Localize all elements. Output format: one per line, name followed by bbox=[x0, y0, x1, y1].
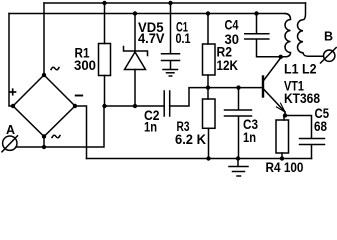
node R3 bottom on ground rail bbox=[206, 156, 210, 160]
node base junction R2 R3 bbox=[206, 85, 210, 89]
svg-text:A: A bbox=[6, 123, 15, 137]
plus sign bridge output bbox=[10, 89, 16, 95]
resistor R2 bbox=[203, 14, 216, 88]
label C2 bbox=[144, 108, 160, 123]
capacitor C3 bbox=[225, 88, 252, 159]
label 1n value C3 bbox=[243, 130, 256, 145]
label 300 value bbox=[74, 58, 96, 73]
label A bbox=[6, 123, 15, 137]
wire rail2 plus rail from left corner to L1 bbox=[9, 13, 285, 15]
node bridge top vertex bbox=[42, 73, 46, 77]
svg-text:4.7V: 4.7V bbox=[138, 31, 165, 46]
label 0.1 value bbox=[176, 31, 191, 46]
node VD5 top on rail2 bbox=[133, 11, 137, 15]
minus sign bridge output bbox=[76, 95, 83, 97]
label R4 100 value bbox=[266, 160, 304, 175]
inductor L2 bbox=[298, 3, 324, 56]
ground symbol under C1 bbox=[163, 70, 178, 77]
bridge rectifier diamond bbox=[13, 75, 75, 137]
node R2 top on rail2 bbox=[206, 11, 210, 15]
capacitor C1 bbox=[162, 3, 180, 69]
node bridge right vertex bbox=[73, 104, 77, 108]
node bridge bottom vertex bbox=[42, 134, 46, 138]
ground symbol under ground rail bbox=[229, 159, 248, 177]
label R3 bbox=[177, 119, 190, 134]
svg-text:KT368: KT368 bbox=[284, 91, 320, 106]
node bridge left vertex bbox=[11, 104, 15, 108]
svg-text:6.2 K: 6.2 K bbox=[175, 132, 206, 147]
svg-text:C4: C4 bbox=[225, 18, 239, 33]
label R2 bbox=[217, 45, 233, 60]
node collector junction L1 C4 bbox=[279, 55, 283, 59]
svg-text:68: 68 bbox=[314, 119, 327, 134]
svg-text:12K: 12K bbox=[217, 58, 239, 73]
zener diode VD5 bbox=[124, 14, 148, 107]
node C3 bottom on ground rail bbox=[236, 156, 240, 160]
wire stub rail1 down to bridge top vertex bbox=[43, 3, 45, 75]
label 6.2 K value bbox=[175, 132, 206, 147]
label B bbox=[324, 30, 333, 44]
tilde ac top bbox=[51, 67, 59, 70]
node R4 bottom on ground rail bbox=[280, 156, 284, 160]
svg-text:R4 100: R4 100 bbox=[266, 160, 304, 175]
wire top rail1 from bridge top to L2 drop bbox=[44, 2, 306, 4]
resistor R1 bbox=[99, 3, 111, 106]
node VD5 bottom junction bbox=[133, 104, 137, 108]
label L1 L2 bbox=[284, 62, 317, 77]
svg-text:L1 L2: L1 L2 bbox=[284, 62, 317, 77]
label C5 bbox=[315, 106, 330, 121]
transistor VT1 collector bbox=[264, 57, 281, 80]
capacitor C5 bbox=[300, 139, 325, 159]
label C3 bbox=[243, 117, 258, 132]
wire line node y106 from R1 to C2 bbox=[105, 105, 165, 107]
wire emitter node to C5 top bbox=[285, 116, 312, 139]
node R1 bottom junction bbox=[102, 104, 106, 108]
capacitor C2 bbox=[164, 91, 170, 116]
svg-text:1n: 1n bbox=[144, 120, 157, 135]
node junction A wire and bridge stub bbox=[42, 145, 46, 149]
label 4.7V value bbox=[138, 31, 165, 46]
wire minus from bridge right vertex down to ground rail bbox=[75, 106, 87, 159]
node C4 top on rail2 bbox=[254, 11, 258, 15]
wire C2 right plate to base riser bbox=[170, 88, 262, 106]
label 30 value bbox=[225, 32, 240, 47]
node C1 top on rail1 bbox=[168, 1, 172, 5]
resistor R4 bbox=[276, 116, 289, 159]
label 1n value C2 bbox=[144, 120, 157, 135]
node C3 top on base wire bbox=[236, 85, 240, 89]
wire A terminal to corner up bbox=[16, 106, 104, 147]
terminal A connector circle with slash bbox=[2, 136, 18, 152]
transistor VT1 emitter with arrow bbox=[264, 90, 285, 116]
inductor L1 bbox=[281, 14, 291, 57]
label 68 value bbox=[314, 119, 327, 134]
transistor VT1 base bar bbox=[262, 77, 264, 97]
label VD5 bbox=[138, 20, 164, 35]
label R1 bbox=[75, 46, 90, 61]
wire bridge bottom stub to A wire bbox=[43, 137, 45, 148]
label C4 bbox=[225, 18, 239, 33]
svg-text:300: 300 bbox=[74, 58, 96, 73]
label C1 bbox=[176, 20, 188, 35]
label KT368 type bbox=[284, 91, 320, 106]
wire ground rail bottom bbox=[87, 158, 312, 160]
resistor R3 bbox=[203, 88, 216, 159]
label VT1 bbox=[284, 79, 304, 94]
svg-text:1n: 1n bbox=[243, 130, 256, 145]
svg-text:B: B bbox=[324, 30, 333, 44]
node emitter junction R4 C5 bbox=[283, 113, 287, 117]
svg-text:0.1: 0.1 bbox=[176, 31, 191, 46]
label 12K value bbox=[217, 58, 239, 73]
tilde ac bottom bbox=[52, 135, 60, 138]
wire left vertical from rail2 down to bridge left vertex bbox=[9, 14, 13, 107]
terminal B connector circle with slash bbox=[321, 48, 337, 64]
capacitor C4 bbox=[245, 14, 279, 57]
node R1 top on rail1 bbox=[102, 1, 106, 5]
